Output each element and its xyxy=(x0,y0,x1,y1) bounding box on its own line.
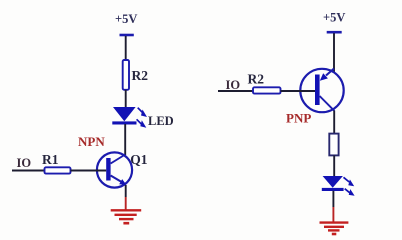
power bar +5V left xyxy=(120,34,134,37)
LED left light arrows xyxy=(137,108,147,128)
resistor R1 xyxy=(45,167,71,173)
transistor Q2 PNP xyxy=(300,69,343,113)
ground right xyxy=(320,223,349,234)
svg-text:NPN: NPN xyxy=(78,134,105,149)
power bar +5V right xyxy=(327,31,342,34)
LED right diode xyxy=(322,176,344,191)
wire R1 to Q1 base xyxy=(71,170,107,172)
wire resistor to LED right xyxy=(333,155,335,177)
svg-text:LED: LED xyxy=(148,114,174,128)
svg-text:+5V: +5V xyxy=(323,11,345,25)
wire LED to ground right xyxy=(332,191,334,222)
svg-text:Q1: Q1 xyxy=(130,152,148,167)
LED right light arrows xyxy=(344,177,355,196)
resistor R2 left xyxy=(123,60,129,90)
LED left diode xyxy=(112,107,136,125)
resistor right vertical xyxy=(329,134,338,156)
wire Q1 emitter to ground xyxy=(125,185,127,210)
svg-text:R2: R2 xyxy=(132,68,149,83)
wire R2 to Q2 base xyxy=(281,90,316,92)
wire Q2 collector to resistor xyxy=(333,111,335,135)
ground left xyxy=(111,210,142,223)
svg-text:IO: IO xyxy=(17,156,32,170)
svg-text:R2: R2 xyxy=(248,72,265,87)
wire +5V bar to R2 left xyxy=(125,36,127,61)
wire IO to R2 right xyxy=(218,90,253,92)
wire +5V bar to Q2 emitter xyxy=(333,33,335,72)
wire LED to Q1 collector xyxy=(124,124,126,155)
wire IO to R1 xyxy=(12,170,45,172)
transistor Q1 NPN xyxy=(97,152,132,187)
svg-text:IO: IO xyxy=(226,78,241,92)
resistor R2 right horizontal xyxy=(253,87,281,93)
svg-text:R1: R1 xyxy=(42,152,59,167)
svg-text:+5V: +5V xyxy=(115,12,137,26)
svg-text:PNP: PNP xyxy=(286,111,311,126)
wire R2 to LED left xyxy=(125,90,127,108)
